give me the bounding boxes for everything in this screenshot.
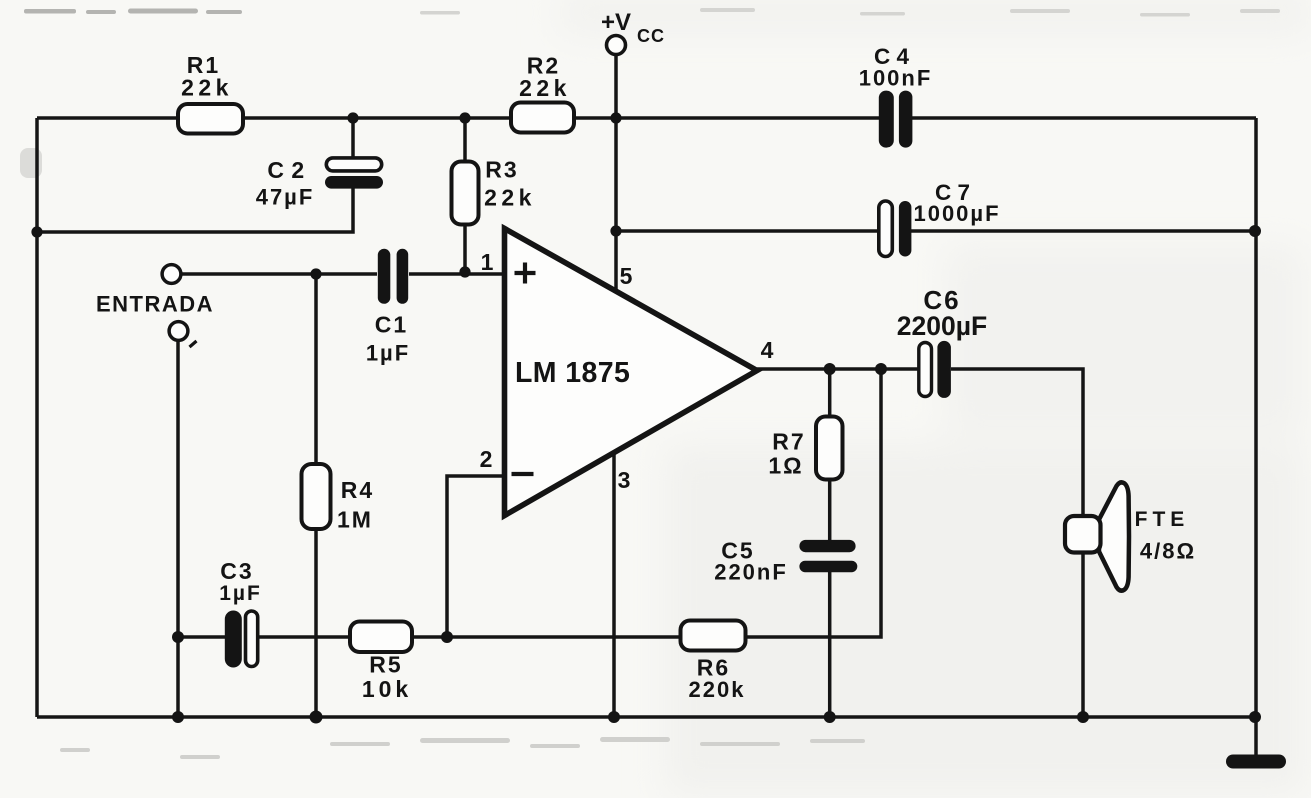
- svg-text:1µF: 1µF: [366, 341, 410, 366]
- svg-text:2200µF: 2200µF: [897, 311, 987, 341]
- svg-text:47µF: 47µF: [256, 185, 315, 210]
- svg-text:100nF: 100nF: [859, 66, 933, 91]
- svg-text:22k: 22k: [181, 75, 233, 101]
- svg-text:1Ω: 1Ω: [768, 453, 803, 479]
- svg-text:4/8Ω: 4/8Ω: [1140, 539, 1196, 564]
- svg-text:ENTRADA: ENTRADA: [96, 292, 214, 317]
- svg-text:10k: 10k: [362, 676, 412, 702]
- svg-text:CC: CC: [637, 26, 665, 46]
- svg-text:C1: C1: [375, 312, 408, 338]
- svg-text:C3: C3: [220, 558, 253, 584]
- svg-text:1: 1: [481, 249, 496, 275]
- svg-text:22k: 22k: [484, 185, 536, 211]
- svg-text:+V: +V: [601, 9, 631, 36]
- svg-text:R5: R5: [369, 652, 402, 678]
- svg-text:R7: R7: [772, 429, 805, 455]
- svg-text:FTE: FTE: [1135, 508, 1190, 531]
- svg-text:2: 2: [480, 446, 495, 472]
- svg-text:4: 4: [761, 337, 776, 363]
- svg-text:R4: R4: [341, 477, 374, 503]
- svg-text:220k: 220k: [689, 677, 746, 702]
- svg-text:1µF: 1µF: [219, 582, 262, 605]
- svg-text:3: 3: [618, 467, 633, 493]
- svg-text:220nF: 220nF: [714, 560, 788, 585]
- svg-text:1000µF: 1000µF: [913, 201, 1000, 226]
- svg-text:22k: 22k: [519, 75, 571, 101]
- svg-text:LM 1875: LM 1875: [515, 357, 630, 389]
- svg-text:R3: R3: [485, 157, 518, 183]
- svg-text:1M: 1M: [337, 507, 373, 533]
- svg-text:5: 5: [620, 263, 635, 289]
- svg-text:C 2: C 2: [267, 157, 304, 183]
